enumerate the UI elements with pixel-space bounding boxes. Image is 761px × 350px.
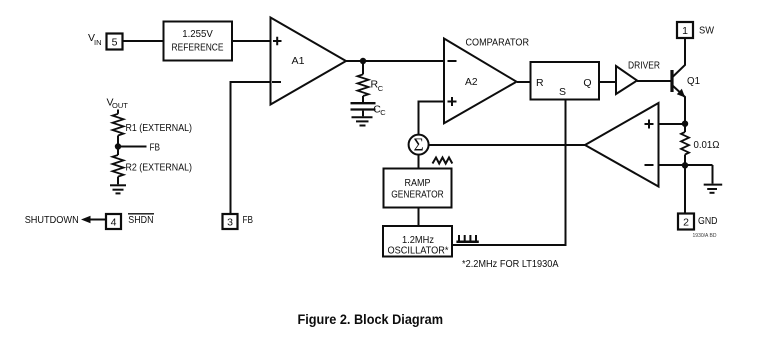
svg-text:C: C xyxy=(378,84,384,93)
svg-text:1930/A BD: 1930/A BD xyxy=(693,233,717,239)
svg-text:0.01Ω: 0.01Ω xyxy=(694,139,720,151)
svg-text:A1: A1 xyxy=(292,55,305,67)
svg-text:FB: FB xyxy=(150,142,161,154)
svg-text:S: S xyxy=(559,86,566,98)
svg-text:GND: GND xyxy=(698,215,718,227)
svg-text:A2: A2 xyxy=(465,76,478,88)
svg-text:SHUTDOWN: SHUTDOWN xyxy=(25,214,79,226)
svg-text:R2 (EXTERNAL): R2 (EXTERNAL) xyxy=(126,161,193,173)
svg-text:Σ: Σ xyxy=(414,134,424,154)
svg-text:OUT: OUT xyxy=(112,101,128,110)
svg-text:1.255V: 1.255V xyxy=(182,28,213,40)
svg-text:5: 5 xyxy=(112,37,118,49)
svg-text:GENERATOR: GENERATOR xyxy=(391,189,444,201)
svg-text:RAMP: RAMP xyxy=(405,177,431,189)
svg-text:3: 3 xyxy=(227,217,233,229)
svg-text:SW: SW xyxy=(699,25,714,37)
svg-text:Figure 2. Block Diagram: Figure 2. Block Diagram xyxy=(298,311,444,327)
svg-text:4: 4 xyxy=(111,217,117,229)
svg-text:DRIVER: DRIVER xyxy=(628,60,660,72)
svg-text:C: C xyxy=(380,108,386,117)
svg-text:REFERENCE: REFERENCE xyxy=(172,41,224,53)
svg-text:1: 1 xyxy=(682,25,688,37)
svg-text:IN: IN xyxy=(94,38,102,47)
svg-text:FB: FB xyxy=(243,214,254,226)
svg-text:Q: Q xyxy=(583,77,591,89)
svg-text:Q1: Q1 xyxy=(687,75,700,87)
svg-text:SHDN: SHDN xyxy=(128,214,153,226)
svg-text:OSCILLATOR*: OSCILLATOR* xyxy=(388,244,449,256)
svg-text:*2.2MHz FOR LT1930A: *2.2MHz FOR LT1930A xyxy=(462,258,559,270)
svg-text:2: 2 xyxy=(683,217,689,229)
svg-text:COMPARATOR: COMPARATOR xyxy=(466,37,530,49)
svg-text:R: R xyxy=(536,77,544,89)
svg-text:R1 (EXTERNAL): R1 (EXTERNAL) xyxy=(126,122,193,134)
